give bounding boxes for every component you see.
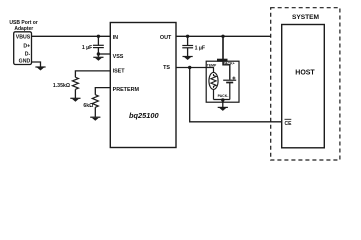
ground (C2) (183, 56, 193, 60)
USB connector J1 (9, 20, 37, 64)
svg-text:1.35kΩ: 1.35kΩ (53, 83, 70, 89)
wire VBUS to IN (32, 35, 111, 37)
wire OUT to system (176, 35, 271, 37)
wire PACK- net (214, 99, 230, 101)
battery pack box (206, 61, 239, 102)
svg-text:GND: GND (19, 58, 31, 64)
wire USB GND (32, 62, 41, 67)
svg-text:VBUS: VBUS (16, 35, 31, 41)
capacitor C2 1uF (182, 36, 205, 56)
svg-text:bq25100: bq25100 (129, 111, 159, 120)
svg-text:CE: CE (285, 121, 293, 127)
wire C1 to VSS pin (98, 53, 110, 55)
resistor R1 1.35k (53, 77, 79, 98)
svg-text:HOST: HOST (295, 70, 315, 77)
wire CE to host (190, 68, 282, 122)
junction OUT/C2 (186, 35, 189, 38)
wire TS to pack (176, 67, 214, 69)
ground (input cap / VSS) (93, 54, 103, 61)
thermistor RT1 (209, 68, 218, 100)
label CE (active low) (285, 119, 293, 127)
junction VBUS/C1 (97, 35, 100, 38)
svg-text:IN: IN (113, 35, 118, 41)
svg-text:1 µF: 1 µF (82, 45, 92, 51)
HOST box (282, 25, 325, 148)
wire PRETERM to R2 (95, 88, 110, 95)
svg-text:PRETERM: PRETERM (113, 87, 140, 93)
svg-text:6kΩ: 6kΩ (83, 103, 93, 109)
terminal PACK+ (217, 59, 228, 62)
svg-text:D+: D+ (23, 44, 30, 50)
svg-text:Adapter: Adapter (14, 26, 33, 32)
svg-text:1 µF: 1 µF (195, 45, 205, 51)
wire pack ground stem (222, 100, 224, 108)
wire pack+ internal (223, 62, 230, 80)
svg-text:VSS: VSS (113, 54, 124, 60)
svg-text:TS: TS (163, 65, 170, 71)
resistor R2 6k (83, 95, 98, 117)
ground (battery pack) (218, 107, 228, 111)
SYSTEM dashed box (271, 8, 340, 160)
capacitor C1 1uF (82, 36, 104, 54)
svg-text:TEMP: TEMP (207, 63, 217, 67)
junction TS/CE (188, 66, 191, 69)
battery BT1 (223, 77, 236, 100)
ground (R2) (90, 117, 100, 121)
ground (R1) (70, 98, 80, 102)
svg-text:PACK-: PACK- (218, 94, 230, 98)
junction OUT/pack feed (221, 35, 224, 38)
junction PACK- (221, 98, 224, 101)
wire pack feed (222, 36, 224, 59)
svg-text:OUT: OUT (160, 35, 172, 41)
wire ISET to R1 (75, 71, 110, 77)
svg-text:D-: D- (25, 52, 31, 58)
junction C1/VSS (97, 52, 100, 55)
IC U1 bq25100 (110, 23, 176, 148)
svg-text:ISET: ISET (113, 68, 126, 74)
svg-text:SYSTEM: SYSTEM (292, 14, 320, 21)
ground (USB connector) (35, 66, 45, 70)
